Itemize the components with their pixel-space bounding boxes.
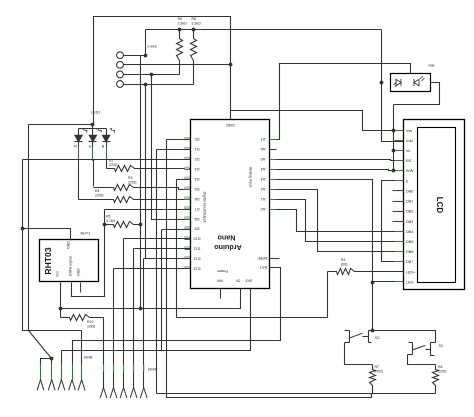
svg-text:RHT03: RHT03: [43, 247, 53, 274]
PIR element glyph left: [396, 79, 401, 86]
arrow D11: [133, 373, 135, 388]
wire D1 down to inner bottom bus: [157, 149, 191, 151]
svg-text:LED+: LED+: [406, 270, 415, 274]
svg-text:GND: GND: [67, 241, 71, 249]
node 5V-R8: [192, 28, 196, 32]
wire A4 to LCD R/W junction: [277, 170, 404, 171]
svg-text:R/W: R/W: [406, 169, 414, 173]
svg-text:LED1: LED1: [91, 111, 101, 115]
svg-text:Vo: Vo: [406, 149, 410, 153]
resistor R1 80 (LED+): [328, 269, 404, 275]
svg-text:EINA: EINA: [148, 367, 157, 371]
wire LED- row: [373, 281, 404, 283]
svg-text:DB7: DB7: [406, 260, 413, 264]
svg-text:D9: D9: [195, 227, 200, 231]
svg-text:RST: RST: [259, 265, 267, 269]
node Vcc 5V: [59, 307, 63, 311]
stub A6: [270, 149, 277, 151]
Nano VIN stub: [220, 289, 222, 299]
node c3 branch: [150, 73, 154, 77]
svg-text:DB3: DB3: [406, 220, 413, 224]
wire D0 down to outer bottom bus: [167, 139, 191, 141]
connector arrows bottom-middle group: [103, 373, 105, 388]
resistor R5 4.7k: [105, 222, 141, 228]
wire 5V down right side to PIR left pin and LCD Vdd: [382, 30, 404, 142]
wire A7 to PIR top: [277, 64, 411, 140]
svg-text:D13: D13: [194, 266, 201, 270]
wire D13: [114, 268, 191, 270]
wire D12 to arrow column: [144, 258, 191, 260]
wire arrow81: [81, 331, 83, 356]
svg-text:Vdd: Vdd: [406, 139, 413, 143]
LED G: [92, 129, 94, 136]
node rail GND: [21, 227, 25, 231]
svg-text:3V3: 3V3: [246, 279, 253, 283]
wire D9 down: [162, 229, 191, 231]
wire A1 to LCD DB5: [277, 200, 404, 242]
node 5V-R9: [178, 28, 182, 32]
svg-text:R4: R4: [95, 189, 100, 193]
svg-text:1-wire: 1-wire: [147, 45, 157, 49]
resistor R2 220 (B LED to D3): [107, 166, 191, 172]
node rail meets 5V line: [139, 307, 143, 311]
svg-text:G: G: [89, 145, 92, 149]
svg-text:Vss: Vss: [406, 129, 412, 133]
svg-text:R6: R6: [438, 365, 443, 369]
wire RHT03 Vcc down to 5V line: [60, 283, 62, 309]
PIR sensor body: [391, 74, 431, 92]
svg-text:A2: A2: [261, 187, 266, 191]
wire D10: [124, 238, 191, 240]
wire to arrow40: [41, 359, 52, 365]
resistor R4 220 (R LED to D6): [79, 197, 191, 203]
wire D7 data line from RHT03: [105, 209, 191, 211]
svg-text:R10: R10: [87, 320, 93, 324]
svg-text:A7: A7: [261, 137, 266, 141]
svg-text:LED-: LED-: [406, 280, 415, 284]
svg-text:DB4: DB4: [406, 230, 413, 234]
node LED1: [91, 123, 95, 127]
Nano right green stubs: [270, 139, 277, 141]
svg-text:AREF: AREF: [257, 256, 268, 260]
arrow D12: [143, 373, 145, 388]
switch S2: [371, 329, 375, 333]
wire bottom bus (inner) D1 to R7/R6: [157, 393, 436, 395]
wire LED bus vertical: [28, 125, 30, 331]
svg-text:S1: S1: [439, 344, 444, 348]
svg-text:DB2: DB2: [406, 210, 413, 214]
svg-text:Nano: Nano: [217, 234, 236, 243]
svg-text:10kΩ: 10kΩ: [87, 325, 96, 329]
svg-text:D3: D3: [195, 167, 200, 171]
svg-text:220Ω: 220Ω: [438, 370, 447, 374]
LCD red stubs DB0-DB3: [393, 190, 404, 192]
svg-text:Analog Input: Analog Input: [249, 167, 253, 187]
svg-text:4.7kΩ: 4.7kΩ: [106, 219, 116, 223]
svg-text:D4: D4: [195, 177, 200, 181]
node R5 left: [103, 223, 107, 227]
svg-text:R3: R3: [128, 176, 133, 180]
node c4 branch: [144, 83, 148, 87]
wire Nano 5V to 5V line: [61, 289, 241, 309]
svg-text:D2: D2: [195, 157, 200, 161]
svg-text:R8: R8: [192, 17, 197, 21]
wire circle3 branch down to D8: [152, 75, 191, 220]
wire R1 3V3 line: [177, 317, 328, 319]
LCD green stubs connected pins: [395, 130, 404, 132]
resistor R8 3.3k: [191, 30, 197, 85]
svg-text:D5: D5: [195, 187, 200, 191]
wire 5V bus top: [146, 29, 382, 31]
arrow 51: [51, 364, 53, 365]
wire Nano 3V3 down to R1 line: [62, 289, 251, 351]
svg-text:Arduino: Arduino: [214, 243, 242, 252]
node c1: [144, 54, 148, 58]
PIR element glyph right: [414, 79, 419, 86]
svg-text:D8: D8: [195, 217, 200, 221]
svg-text:Power: Power: [216, 269, 227, 273]
wire GND from Nano GND pin to LCD Vss: [231, 111, 404, 131]
svg-text:RHT1: RHT1: [81, 231, 91, 235]
svg-text:DB1: DB1: [406, 200, 413, 204]
resistor R9 3.3k: [177, 30, 183, 75]
wire D2 to far-left rail: [23, 159, 191, 161]
RHT03 sensor body: [40, 240, 99, 282]
wire A2 to LCD DB6: [277, 190, 404, 252]
svg-text:D7: D7: [195, 207, 200, 211]
svg-text:R9: R9: [178, 17, 183, 21]
wire R1 left leg down: [327, 272, 329, 318]
svg-text:GND: GND: [226, 123, 235, 128]
svg-text:LCD: LCD: [435, 197, 444, 214]
wire RHT03 DATA to R5: [72, 225, 105, 297]
arrow 61: [61, 356, 63, 364]
wire LED G cathode down: [92, 147, 94, 161]
connector header pin circles: [117, 52, 124, 59]
LED R: [78, 129, 80, 136]
svg-text:A0: A0: [261, 207, 266, 211]
wire left rail D2 down to bottom: [23, 160, 82, 331]
svg-text:R1: R1: [341, 258, 346, 262]
node Vo: [392, 149, 396, 153]
LCD U2 body: [404, 120, 465, 290]
wire D11: [134, 248, 191, 250]
svg-text:Digital Input/Output: Digital Input/Output: [203, 192, 207, 223]
svg-text:EINB: EINB: [84, 356, 93, 360]
node Vss: [392, 129, 396, 133]
wire circle1 to 5V riser: [124, 55, 146, 57]
wire circle2 row: [124, 64, 231, 66]
svg-text:220Ω: 220Ω: [95, 194, 104, 198]
svg-text:80Ω: 80Ω: [341, 263, 348, 267]
wire D4 down: [177, 179, 191, 181]
svg-text:220Ω: 220Ω: [128, 181, 137, 185]
arrow D10: [123, 373, 125, 388]
svg-text:DB5: DB5: [406, 240, 413, 244]
wire diagonal to bottom arrows: [29, 331, 52, 359]
wire A0 to LCD DB4: [277, 210, 404, 232]
svg-text:D12: D12: [194, 257, 201, 261]
wire PIR right pin to LCD bus: [394, 83, 440, 105]
LED B: [106, 129, 108, 136]
svg-text:D1: D1: [195, 147, 200, 151]
node R5 right end: [139, 223, 143, 227]
node PIR left pin on 5V rail: [380, 81, 384, 85]
wire circle4 branch down through D12 to arrow: [145, 85, 147, 259]
svg-text:A5: A5: [261, 157, 266, 161]
wire arrow61: [61, 351, 63, 356]
top-left wire loop from LED1 node up over to Nano GND column: [94, 17, 231, 125]
wire arrow51: [51, 359, 53, 365]
wire LED R cathode down: [78, 147, 80, 161]
svg-text:VIN: VIN: [217, 279, 224, 283]
wire RST down to bottom left arrow: [73, 268, 281, 356]
svg-text:3.3kΩ: 3.3kΩ: [192, 22, 202, 26]
switch S1: [431, 342, 436, 344]
svg-text:220Ω: 220Ω: [109, 163, 118, 167]
wire circle4 to R8 bottom: [124, 84, 194, 86]
wire LED B cathode down: [106, 147, 108, 161]
svg-text:D10: D10: [194, 237, 201, 241]
node R/W: [392, 169, 396, 173]
resistor R10 10k pullup: [60, 309, 62, 318]
svg-text:DB0: DB0: [406, 189, 413, 193]
arrow 81: [81, 356, 83, 364]
svg-text:A6: A6: [261, 147, 266, 151]
svg-text:D0: D0: [195, 137, 200, 141]
arrow D13: [113, 373, 115, 388]
svg-text:S2: S2: [375, 336, 380, 340]
resistor R6 220: [433, 365, 439, 394]
svg-text:R5: R5: [106, 215, 111, 219]
svg-text:220Ω: 220Ω: [375, 370, 384, 374]
svg-text:PIR: PIR: [429, 64, 435, 68]
svg-text:Vcc: Vcc: [56, 271, 60, 277]
wire E to DB7 vertical: [382, 181, 404, 262]
svg-text:D6: D6: [195, 197, 200, 201]
arrow 71: [72, 356, 74, 364]
Nano left pin green stubs and chips: [185, 139, 191, 141]
wire PIR-out bus vertical on LCD Vss/Vo/RW: [393, 105, 395, 171]
wire RHT03 top GND to left rail: [23, 229, 71, 241]
svg-text:A4: A4: [261, 167, 266, 171]
svg-text:R7: R7: [375, 365, 380, 369]
svg-text:A3: A3: [261, 177, 266, 181]
stub RHT03 GND red: [80, 283, 82, 293]
op: Arduino Nano U1 body: [191, 120, 270, 289]
svg-text:DB6: DB6: [406, 250, 413, 254]
svg-text:GND: GND: [77, 268, 81, 276]
svg-text:RS: RS: [406, 159, 412, 163]
resistor R3 220 (G LED to D5): [94, 185, 191, 191]
svg-text:D11: D11: [194, 247, 201, 251]
node bottom-left split: [50, 357, 54, 361]
svg-text:DATA-signal: DATA-signal: [69, 256, 73, 276]
node LED- tap: [371, 281, 375, 285]
resistor R7 220: [370, 365, 376, 394]
stub AREF (red, unconnected): [270, 258, 280, 260]
node GND/circle2 junction: [229, 63, 233, 67]
wire 5V vertical rail (x=139.5) down to 5V line: [140, 56, 142, 309]
wire A3 down to switch S2 with LED- tap: [277, 180, 373, 330]
wire circle3 to R9 bottom: [124, 74, 180, 76]
wire R10 to arrow103: [103, 318, 105, 373]
svg-text:3.3kΩ: 3.3kΩ: [178, 22, 188, 26]
wire LED anode bus: [29, 124, 93, 126]
wire A5 to LCD RS: [277, 160, 404, 161]
svg-text:5V: 5V: [235, 279, 240, 283]
connector arrows bottom-left group: [40, 364, 42, 365]
svg-text:A1: A1: [261, 197, 266, 201]
